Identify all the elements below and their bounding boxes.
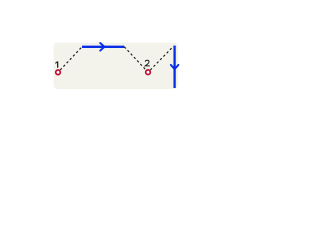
label 2 (145, 60, 150, 66)
wire: dashed segment end of horizontal vector to node 2 (124, 47, 146, 70)
wire: dashed segment node 2 to top of vertical vector (150, 46, 173, 70)
node 1 (56, 70, 61, 75)
node 2 (146, 70, 151, 75)
background panel (54, 43, 179, 90)
label 1 (55, 61, 57, 67)
vertical displacement vector (171, 46, 179, 88)
wire: dashed segment node 1 to start of horizontal vector (60, 47, 82, 70)
horizontal displacement vector (82, 43, 124, 51)
